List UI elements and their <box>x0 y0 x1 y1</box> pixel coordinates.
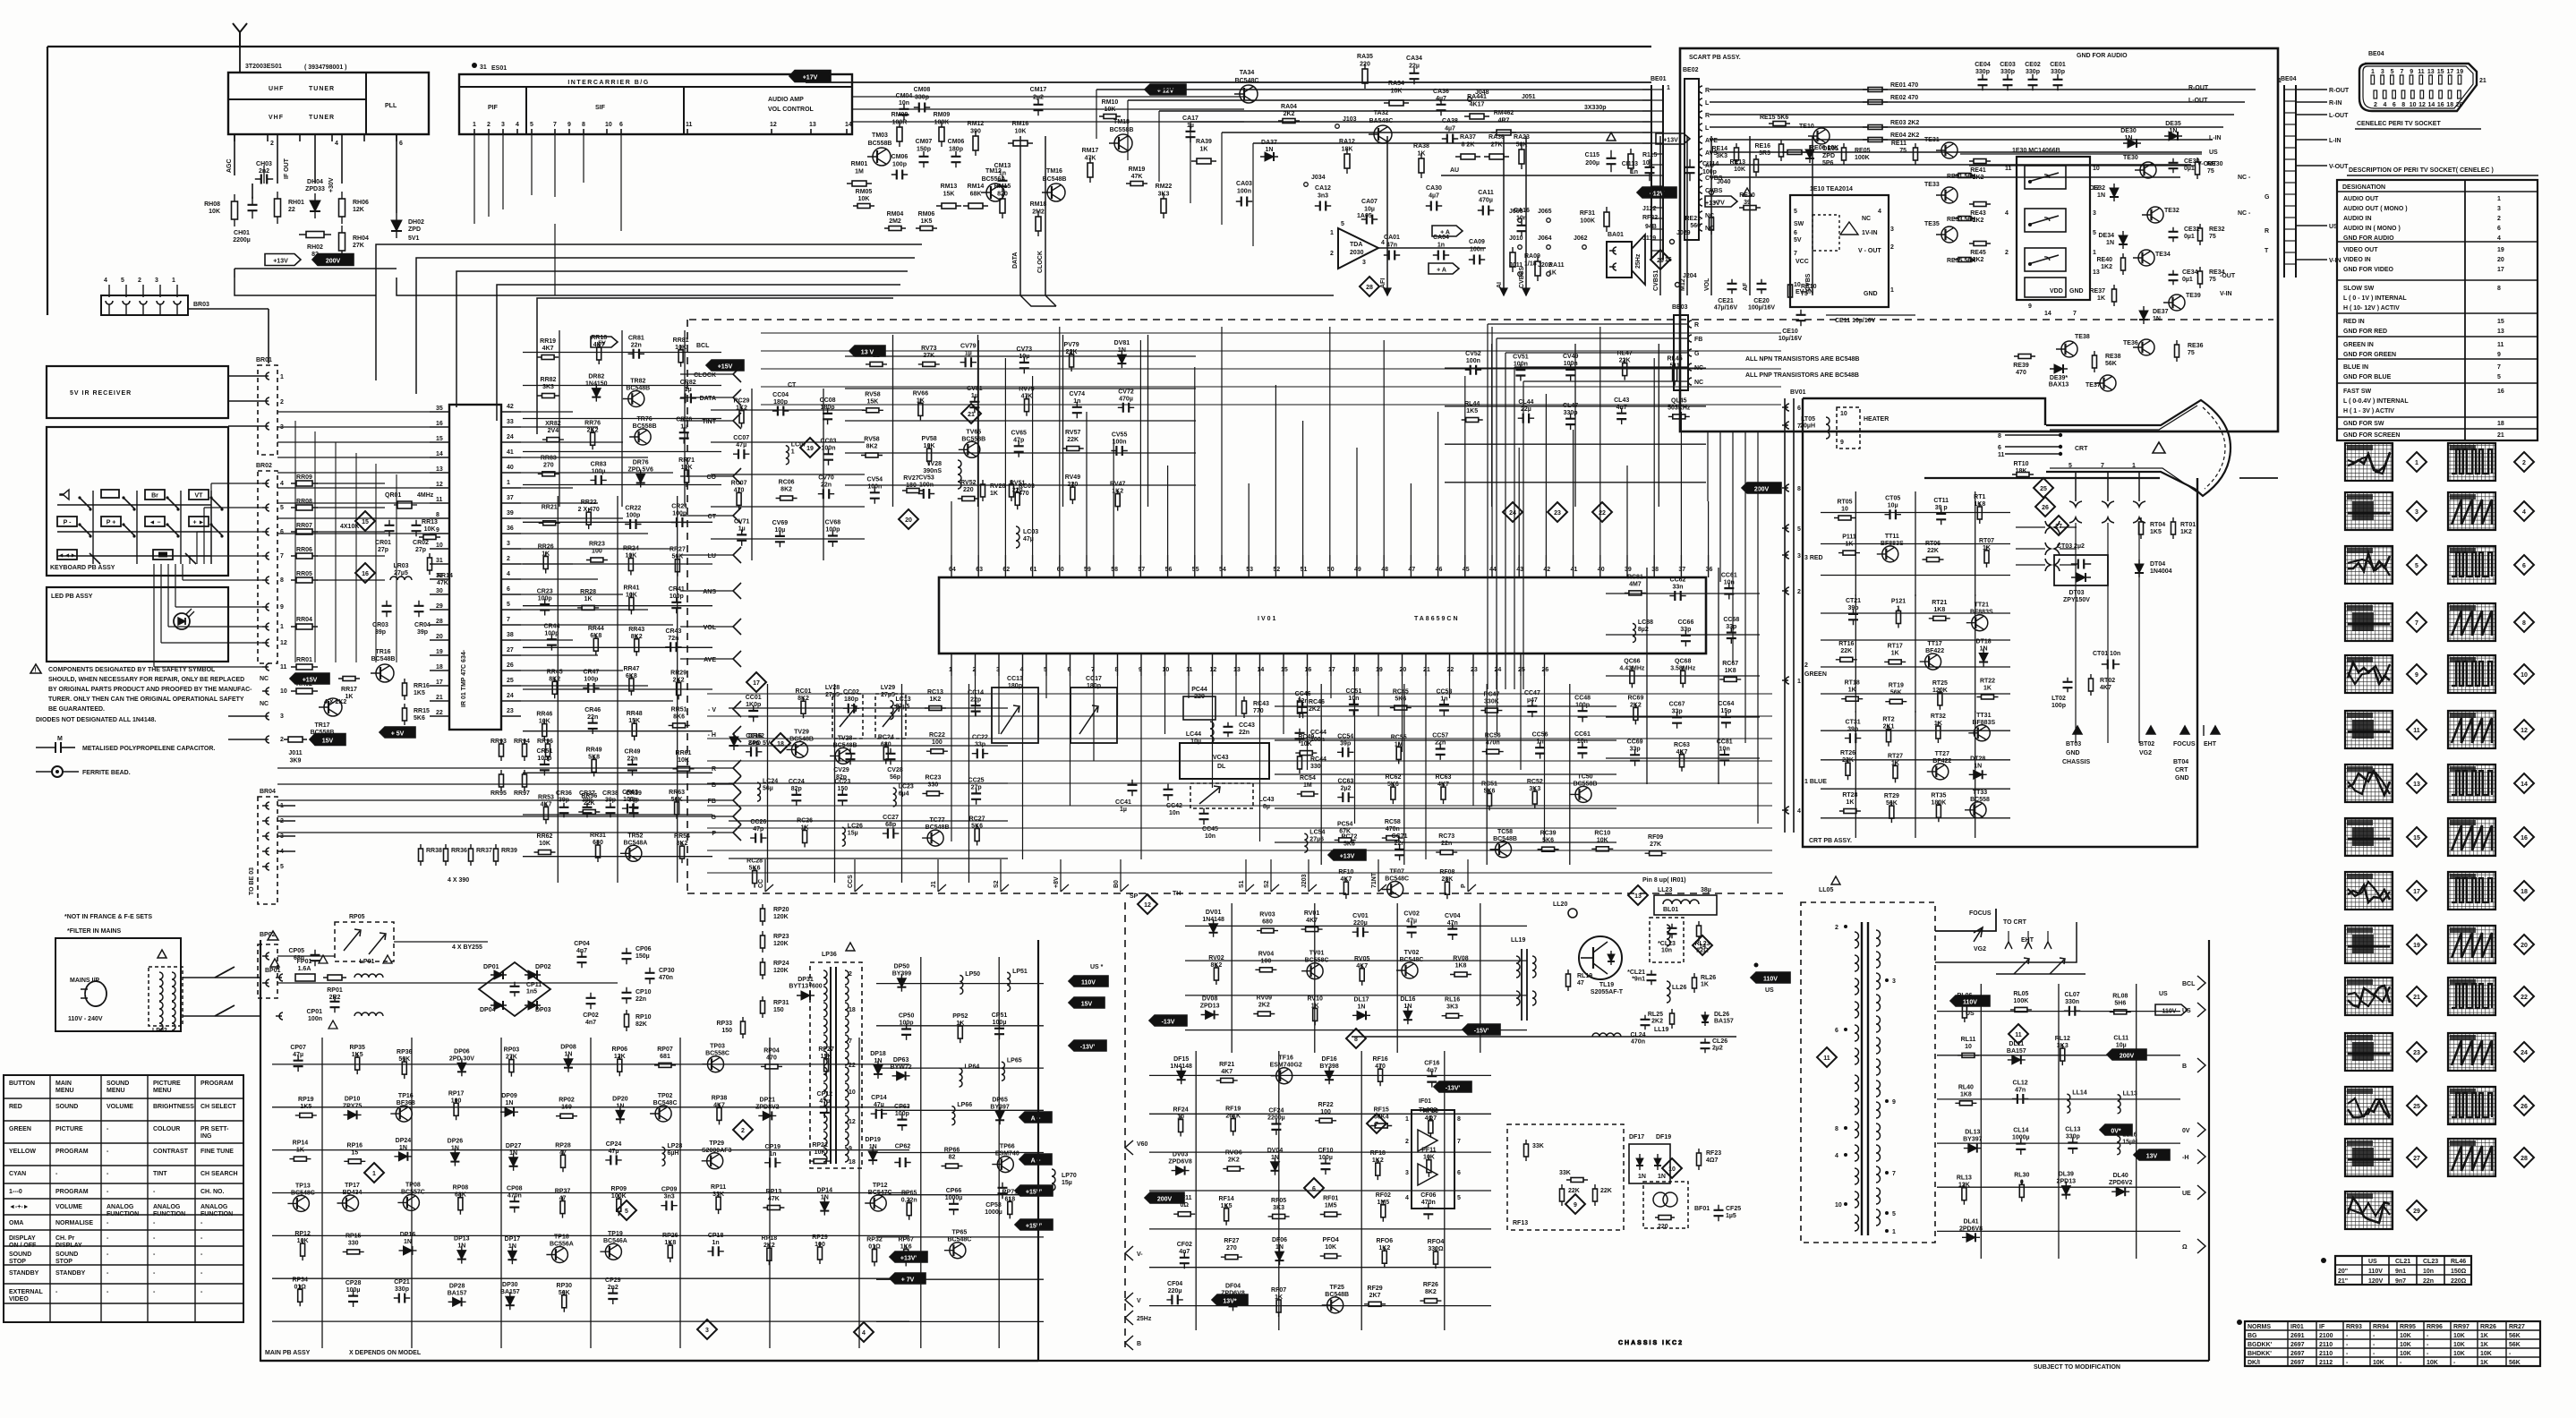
pin BE03 G <box>1688 349 1692 356</box>
svg-text:SP: SP <box>1130 893 1139 900</box>
junction J064 <box>1547 245 1551 250</box>
resistor RC46 2K2 <box>1299 696 1301 718</box>
resistor RR46 <box>543 720 545 741</box>
svg-text:55: 55 <box>1192 567 1199 573</box>
keyboard switch <box>80 498 90 508</box>
resistor RR06 <box>291 555 318 557</box>
svg-text:RP0612K: RP0612K <box>612 1046 628 1060</box>
resistor RV28 1K <box>982 480 984 501</box>
coil LC26 <box>842 827 846 846</box>
svg-text:39: 39 <box>507 510 514 517</box>
wire pin 40 <box>1599 327 1601 555</box>
svg-text:10: 10 <box>849 1089 856 1096</box>
wire audio bus to BE01 <box>1096 89 1651 90</box>
svg-text:12: 12 <box>436 482 443 488</box>
svg-text:AVE: AVE <box>704 657 716 663</box>
capacitor CE03 <box>2007 74 2009 90</box>
diode DF06 <box>1279 1247 1281 1265</box>
diode DP06 <box>461 1058 463 1076</box>
svg-text:RR39: RR39 <box>501 848 517 854</box>
svg-text:V-IN: V-IN <box>2220 291 2232 297</box>
flags A- <box>1019 1112 1052 1123</box>
coil LP65 <box>1002 1062 1005 1081</box>
pin BR02-9 <box>262 603 269 611</box>
svg-text:5V: 5V <box>598 341 606 347</box>
svg-text:US *: US * <box>1090 964 1104 970</box>
svg-text:RED: RED <box>9 1104 22 1110</box>
wire tuner to if <box>397 278 1334 295</box>
svg-text:CP51100µ: CP51100µ <box>992 1012 1008 1026</box>
svg-text:9: 9 <box>2410 69 2413 75</box>
svg-text:Ω: Ω <box>2182 1244 2188 1251</box>
capacitor CR41 <box>676 597 678 613</box>
svg-text:RE33 56K: RE33 56K <box>1947 217 1975 223</box>
svg-text:V-OUT: V-OUT <box>2197 161 2217 167</box>
capacitor CP24 <box>605 1159 621 1161</box>
svg-text:NC -: NC - <box>2238 175 2251 181</box>
svg-text:RT25120K: RT25120K <box>1932 680 1948 694</box>
svg-text:L-OUT: L-OUT <box>2188 98 2208 104</box>
svg-text:3: 3 <box>2415 509 2418 516</box>
transistor TT17 <box>1925 653 1941 670</box>
svg-text:VOL: VOL <box>704 625 717 631</box>
svg-text:BE01: BE01 <box>1651 76 1667 82</box>
capacitor CC61 <box>1582 742 1583 758</box>
wire cluster bus <box>729 707 1008 709</box>
svg-text:J065: J065 <box>1538 209 1552 215</box>
resistor RF15 <box>1370 1125 1392 1127</box>
svg-text:6: 6 <box>1797 406 1801 412</box>
coil LC54 <box>1304 833 1308 852</box>
flag +12V <box>1145 84 1186 95</box>
resistor RA23 <box>1521 144 1523 169</box>
transformer LP02 <box>149 967 183 1026</box>
svg-text:PV5810K: PV5810K <box>922 436 937 449</box>
svg-text:CM07150p: CM07150p <box>916 139 933 153</box>
svg-text:7: 7 <box>280 553 284 560</box>
diamond 15 <box>355 511 375 531</box>
resistor RC55 <box>1398 742 1400 764</box>
svg-text:38: 38 <box>507 632 514 638</box>
resistor RF01 <box>1320 1214 1342 1216</box>
svg-text:54: 54 <box>1219 567 1226 573</box>
resistor RL45 <box>1674 364 1676 386</box>
capacitor CC22 <box>972 753 988 755</box>
resistor RC13 <box>925 707 946 709</box>
svg-text:18: 18 <box>777 741 784 747</box>
svg-text:S1: S1 <box>1239 880 1245 888</box>
flag 15V <box>310 734 345 746</box>
pin BR02-3 <box>262 713 269 720</box>
svg-text:DF19: DF19 <box>1656 1134 1671 1140</box>
svg-text:ALL PNP TRANSISTORS ARE BC: ALL PNP TRANSISTORS ARE BC548B <box>1745 372 1859 379</box>
capacitor CA09 <box>1469 259 1485 261</box>
capacitor CC46 <box>1302 702 1304 718</box>
wire cluster bus <box>1821 612 2010 614</box>
svg-text:+17V: +17V <box>803 75 818 81</box>
capacitor CV54 <box>874 487 875 503</box>
diode DP09 <box>500 1111 518 1113</box>
svg-text:16: 16 <box>2437 102 2444 108</box>
svg-text:25Hz: 25Hz <box>1635 253 1642 269</box>
coil LP70 15u <box>1052 1169 1055 1191</box>
resistor RR05 <box>291 579 318 581</box>
svg-text:11: 11 <box>2005 166 2012 172</box>
svg-text:21: 21 <box>2479 78 2486 84</box>
waveform thumbnail 8 <box>2448 603 2495 641</box>
svg-text:BLUE IN: BLUE IN <box>2343 364 2368 371</box>
wire LL19 line <box>1352 1036 1736 1038</box>
svg-text:RR476K8: RR476K8 <box>623 666 639 679</box>
capacitor CV02 <box>1411 921 1412 937</box>
transistor TM16 <box>1047 184 1065 201</box>
transistor TR82 <box>628 391 644 407</box>
wire pin 61 <box>1032 376 1034 555</box>
capacitor CR47 <box>583 688 599 689</box>
resistor RF07 <box>1278 1295 1280 1317</box>
svg-text:VOL CONTROL: VOL CONTROL <box>768 107 815 113</box>
svg-text:BT03: BT03 <box>2066 741 2081 747</box>
capacitor CV72 <box>1118 406 1134 408</box>
svg-text:LP50: LP50 <box>965 971 980 978</box>
resistor RC58 <box>1382 837 1403 839</box>
crystal QR01 4MHz <box>397 501 412 508</box>
diode DP18 <box>877 1061 879 1079</box>
svg-text:BT04: BT04 <box>2173 759 2188 765</box>
svg-text:LT0520µH: LT0520µH <box>1800 416 1815 430</box>
transistor TF25 <box>1327 1297 1343 1313</box>
svg-text:TP16BF368: TP16BF368 <box>397 1093 415 1106</box>
resistor RE13 10K <box>1755 155 1757 176</box>
coil LP51 <box>1007 972 1011 991</box>
legend metalised capacitor <box>36 747 55 748</box>
svg-text:PICTURE: PICTURE <box>153 1081 181 1087</box>
svg-text:5: 5 <box>530 122 533 128</box>
svg-text:AGC: AGC <box>226 158 233 173</box>
svg-text:TE33: TE33 <box>1924 182 1940 188</box>
svg-text:CF06470n: CF06470n <box>1420 1192 1436 1206</box>
svg-text:DP50BY399: DP50BY399 <box>892 964 912 978</box>
svg-text:26: 26 <box>2521 1104 2528 1110</box>
transistor TE33 <box>1941 187 1958 203</box>
junction J065 <box>1547 218 1551 223</box>
svg-text:CV72470µ: CV72470µ <box>1118 389 1134 402</box>
svg-text:RV471K2: RV471K2 <box>1110 482 1125 495</box>
waveform thumbnail 17 <box>2345 872 2393 910</box>
terminal CCS <box>854 859 856 892</box>
svg-text:36: 36 <box>507 525 514 532</box>
resistor RC24 <box>885 743 887 765</box>
svg-text:CP581000µ: CP581000µ <box>985 1202 1002 1216</box>
resistor RC10 <box>1591 848 1613 850</box>
svg-text:CT1139 p: CT1139 p <box>1933 498 1949 511</box>
flag -13V' <box>1069 1040 1106 1051</box>
coil LP01 <box>354 974 383 978</box>
svg-text:RP261K8: RP261K8 <box>662 1233 678 1246</box>
svg-text:V60: V60 <box>1137 1141 1148 1148</box>
capacitor CA01 <box>1384 254 1400 256</box>
resistor RM10 <box>1099 115 1121 117</box>
transformer LL19 <box>1521 949 1523 1021</box>
resistor RF31 100K <box>1606 207 1608 232</box>
resistor RR23 <box>586 560 608 561</box>
svg-text:15: 15 <box>436 436 443 442</box>
svg-text:RT11K8: RT11K8 <box>1974 494 1985 508</box>
wire cluster bus <box>1821 512 2010 514</box>
svg-text:24: 24 <box>507 693 514 699</box>
svg-text:DATA: DATA <box>1012 252 1019 269</box>
pin BE02 +13V <box>1699 199 1702 206</box>
svg-text:9: 9 <box>2028 303 2032 310</box>
svg-text:13V*: 13V* <box>1223 1299 1236 1305</box>
legend ferrite bead <box>36 771 52 773</box>
svg-text:9: 9 <box>2497 352 2501 358</box>
pin BE02 CVBS <box>1699 174 1702 181</box>
svg-text:3: 3 <box>1890 226 1894 233</box>
diamond 3 <box>697 1320 717 1339</box>
capacitor CP05 68n <box>314 950 316 966</box>
resistor RE14 3K3 <box>1736 143 1737 165</box>
svg-text:14: 14 <box>436 451 443 457</box>
svg-text:VCC: VCC <box>1796 259 1809 265</box>
svg-text:4: 4 <box>862 1330 866 1337</box>
pin BR02-5 <box>262 504 269 511</box>
pin BE03 FB <box>1688 335 1692 342</box>
coil LP50 <box>960 976 963 995</box>
wire pin 64 <box>951 501 952 555</box>
waveform thumbnail 5 <box>2345 546 2393 584</box>
svg-text:2110: 2110 <box>2319 1342 2333 1348</box>
svg-text:RR97: RR97 <box>2453 1324 2469 1330</box>
svg-text:56K: 56K <box>2509 1360 2521 1366</box>
flag -13V audio <box>1656 133 1690 144</box>
capacitor CP30 470n <box>649 968 651 984</box>
waveform thumbnail 9 <box>2345 655 2393 693</box>
node diamond 9 <box>2407 664 2427 684</box>
switch cell 4 <box>2025 278 2066 297</box>
svg-text:RC47330K: RC47330K <box>1483 692 1499 705</box>
wire pin b23 <box>1472 676 1474 806</box>
wires IR01 right fan <box>521 411 573 413</box>
svg-text:RC58470n: RC58470n <box>1385 819 1401 833</box>
flyback pin 4 <box>1844 1153 1847 1157</box>
antenna <box>233 23 247 47</box>
svg-text:ON / OFF: ON / OFF <box>9 1243 37 1249</box>
svg-text:7: 7 <box>507 617 510 623</box>
svg-text:8: 8 <box>1354 1037 1358 1043</box>
resistor RE31 <box>1954 175 1975 176</box>
svg-text:3: 3 <box>996 667 1000 673</box>
resistor RT27 <box>1895 761 1897 782</box>
svg-text:RP650.22n: RP650.22n <box>901 1191 917 1204</box>
wire pin 45 <box>1464 376 1466 555</box>
svg-text:CYAN: CYAN <box>9 1171 26 1177</box>
coil LT05 20uH <box>1826 417 1830 439</box>
resistor RV52 <box>958 498 979 500</box>
node diamond 10 <box>2514 664 2534 684</box>
svg-text:RC625K6: RC625K6 <box>1385 774 1401 788</box>
svg-text:4: 4 <box>2383 102 2386 108</box>
wire pin b14 <box>1259 676 1261 841</box>
svg-text:RC515K6: RC515K6 <box>1481 781 1497 794</box>
svg-text:63: 63 <box>976 567 983 573</box>
svg-text:MAIN PB ASSY: MAIN PB ASSY <box>265 1350 311 1356</box>
bridge DP01-DP04 <box>479 962 550 1016</box>
block top audio rail <box>806 81 1651 83</box>
resistor RE21 560 <box>1710 213 1712 235</box>
svg-text:RR292K2: RR292K2 <box>670 671 687 684</box>
transistor TE10 <box>1813 128 1830 144</box>
terminal - V <box>733 701 741 717</box>
resistors RR93-RR97 <box>500 739 502 761</box>
node diamond 28 <box>2514 1148 2534 1167</box>
resistor RR21 <box>539 522 560 524</box>
capacitor CE20 100u16V <box>1761 279 1762 294</box>
svg-text:14: 14 <box>2428 102 2435 108</box>
svg-text:+13V: +13V <box>1705 201 1720 207</box>
IC IV01 TA8659CN <box>939 577 1706 653</box>
resistor RP66 <box>942 1166 963 1167</box>
svg-text:DESCRIPTION OF PERI TV SOC: DESCRIPTION OF PERI TV SOCKET( CENELEC ) <box>2349 167 2494 174</box>
svg-text:5P6: 5P6 <box>1822 160 1834 167</box>
flyback pin 3 <box>1885 978 1889 982</box>
node diamond 26 <box>2514 1096 2534 1115</box>
waveform thumbnail 21 <box>2345 978 2393 1015</box>
svg-text:200V: 200V <box>326 259 341 265</box>
svg-text:TUNER: TUNER <box>309 86 335 92</box>
svg-text:CH SEARCH: CH SEARCH <box>200 1171 238 1177</box>
resistor RA34 <box>1384 102 1409 104</box>
resistor RE38 56K <box>2094 351 2095 372</box>
capacitor CT21 <box>1853 609 1855 625</box>
svg-text:1 BLUE: 1 BLUE <box>1804 779 1827 785</box>
svg-text:31: 31 <box>436 558 443 564</box>
svg-text:56K: 56K <box>2509 1342 2521 1348</box>
resistor RL47 <box>1624 359 1625 380</box>
diode DR82 <box>595 384 597 402</box>
svg-text:1: 1 <box>372 1171 376 1177</box>
svg-text:12: 12 <box>2418 102 2426 108</box>
pin BE03 R <box>1688 320 1692 328</box>
svg-text:CA09100n: CA09100n <box>1469 239 1485 253</box>
svg-text:+ ►: + ► <box>193 520 205 526</box>
svg-text:RR2410K: RR2410K <box>623 546 639 560</box>
svg-text:6: 6 <box>1457 1170 1461 1176</box>
capacitor CC54 <box>1337 751 1353 753</box>
terminal S2 <box>1000 859 1002 892</box>
svg-text:CL13330p: CL13330p <box>2065 1127 2080 1140</box>
pin BV01-8 <box>1782 484 1789 491</box>
resistor RC45 <box>1390 707 1412 709</box>
svg-text:DL13BY397: DL13BY397 <box>1963 1130 1983 1143</box>
flag +30V <box>312 254 354 266</box>
svg-text:ES01: ES01 <box>491 65 507 72</box>
wire pin 38 <box>1653 358 1655 555</box>
svg-text:4: 4 <box>1020 667 1024 673</box>
svg-text:8: 8 <box>2497 286 2501 292</box>
svg-text:4: 4 <box>335 141 338 147</box>
svg-text:TE10: TE10 <box>1799 124 1814 130</box>
resistor RA35 <box>1364 64 1366 89</box>
svg-text:13: 13 <box>2497 329 2504 335</box>
svg-text:J204: J204 <box>1683 273 1697 279</box>
resistor RV03 <box>1257 930 1278 932</box>
svg-text:5: 5 <box>1892 1211 1896 1217</box>
diamond 7 <box>1367 1114 1386 1133</box>
svg-text:3X330p: 3X330p <box>1584 105 1607 111</box>
svg-text:RL401K8: RL401K8 <box>1958 1084 1974 1098</box>
svg-text:DP04: DP04 <box>480 1007 496 1013</box>
svg-text:CRT: CRT <box>2175 767 2188 773</box>
resistor RP03 <box>510 1055 512 1077</box>
pin BR04-4 <box>262 848 269 855</box>
resistor RH08 10K <box>234 194 235 226</box>
svg-text:CR23100p: CR23100p <box>537 588 553 602</box>
wire right border <box>2208 940 2210 1361</box>
svg-text:10: 10 <box>280 688 287 695</box>
svg-text:9n1: 9n1 <box>2395 1269 2406 1275</box>
svg-text:J010: J010 <box>1509 235 1523 242</box>
transistor TP66 <box>997 1157 1013 1173</box>
svg-text:8: 8 <box>2401 102 2405 108</box>
svg-text:37: 37 <box>1678 567 1685 573</box>
resistor RF05 <box>1268 1216 1290 1217</box>
resistor RR63 <box>676 798 678 819</box>
svg-text:40: 40 <box>507 465 514 471</box>
capacitor CP29 <box>612 1288 614 1304</box>
resistor RR53 <box>545 802 547 824</box>
svg-text:5: 5 <box>2093 230 2096 236</box>
svg-text:RC1010K: RC1010K <box>1594 830 1610 843</box>
svg-text:RT211K8: RT211K8 <box>1932 600 1947 613</box>
resistor RT32 <box>1937 722 1939 743</box>
resistor RC07 <box>738 488 740 509</box>
node diamond 22 <box>2514 987 2534 1006</box>
capacitor CL14 <box>2020 1139 2022 1155</box>
diode DV04 <box>1275 1157 1276 1175</box>
resistor RT25 <box>1939 688 1941 710</box>
pin BV01-5 <box>1782 525 1789 532</box>
svg-text:9: 9 <box>280 604 284 611</box>
diode DP08 <box>567 1055 569 1072</box>
winding <box>823 1083 827 1098</box>
svg-text:NC: NC <box>260 676 269 682</box>
svg-text:J034: J034 <box>1311 175 1326 181</box>
capacitor CM08 <box>914 107 930 108</box>
svg-text:41: 41 <box>507 449 514 456</box>
transistor TP18 <box>551 1247 567 1263</box>
svg-text:RF31100K: RF31100K <box>1580 210 1595 225</box>
svg-text:DV011N4148: DV011N4148 <box>1202 910 1224 923</box>
svg-text:2: 2 <box>849 971 852 978</box>
svg-text:L ( 0 - 1V ) INTERNAL: L ( 0 - 1V ) INTERNAL <box>2343 295 2407 302</box>
svg-text:11: 11 <box>280 664 287 671</box>
pin BV01-1 <box>1782 677 1789 684</box>
svg-text:22: 22 <box>436 710 443 716</box>
svg-text:BR04: BR04 <box>260 789 276 795</box>
svg-text:5: 5 <box>625 1209 628 1215</box>
svg-text:8: 8 <box>582 122 585 128</box>
below IC middle boxes <box>992 688 1038 743</box>
focus divider <box>1935 922 2077 962</box>
pin BR02-8 <box>262 577 269 584</box>
svg-text:10: 10 <box>605 122 612 128</box>
node diamond 27 <box>2407 1148 2427 1167</box>
svg-text:KEYBOARD PB ASSY: KEYBOARD PB ASSY <box>50 565 115 571</box>
svg-text:12: 12 <box>1144 902 1151 909</box>
svg-text:LP36: LP36 <box>822 952 837 958</box>
diamond 13 <box>1628 885 1648 905</box>
